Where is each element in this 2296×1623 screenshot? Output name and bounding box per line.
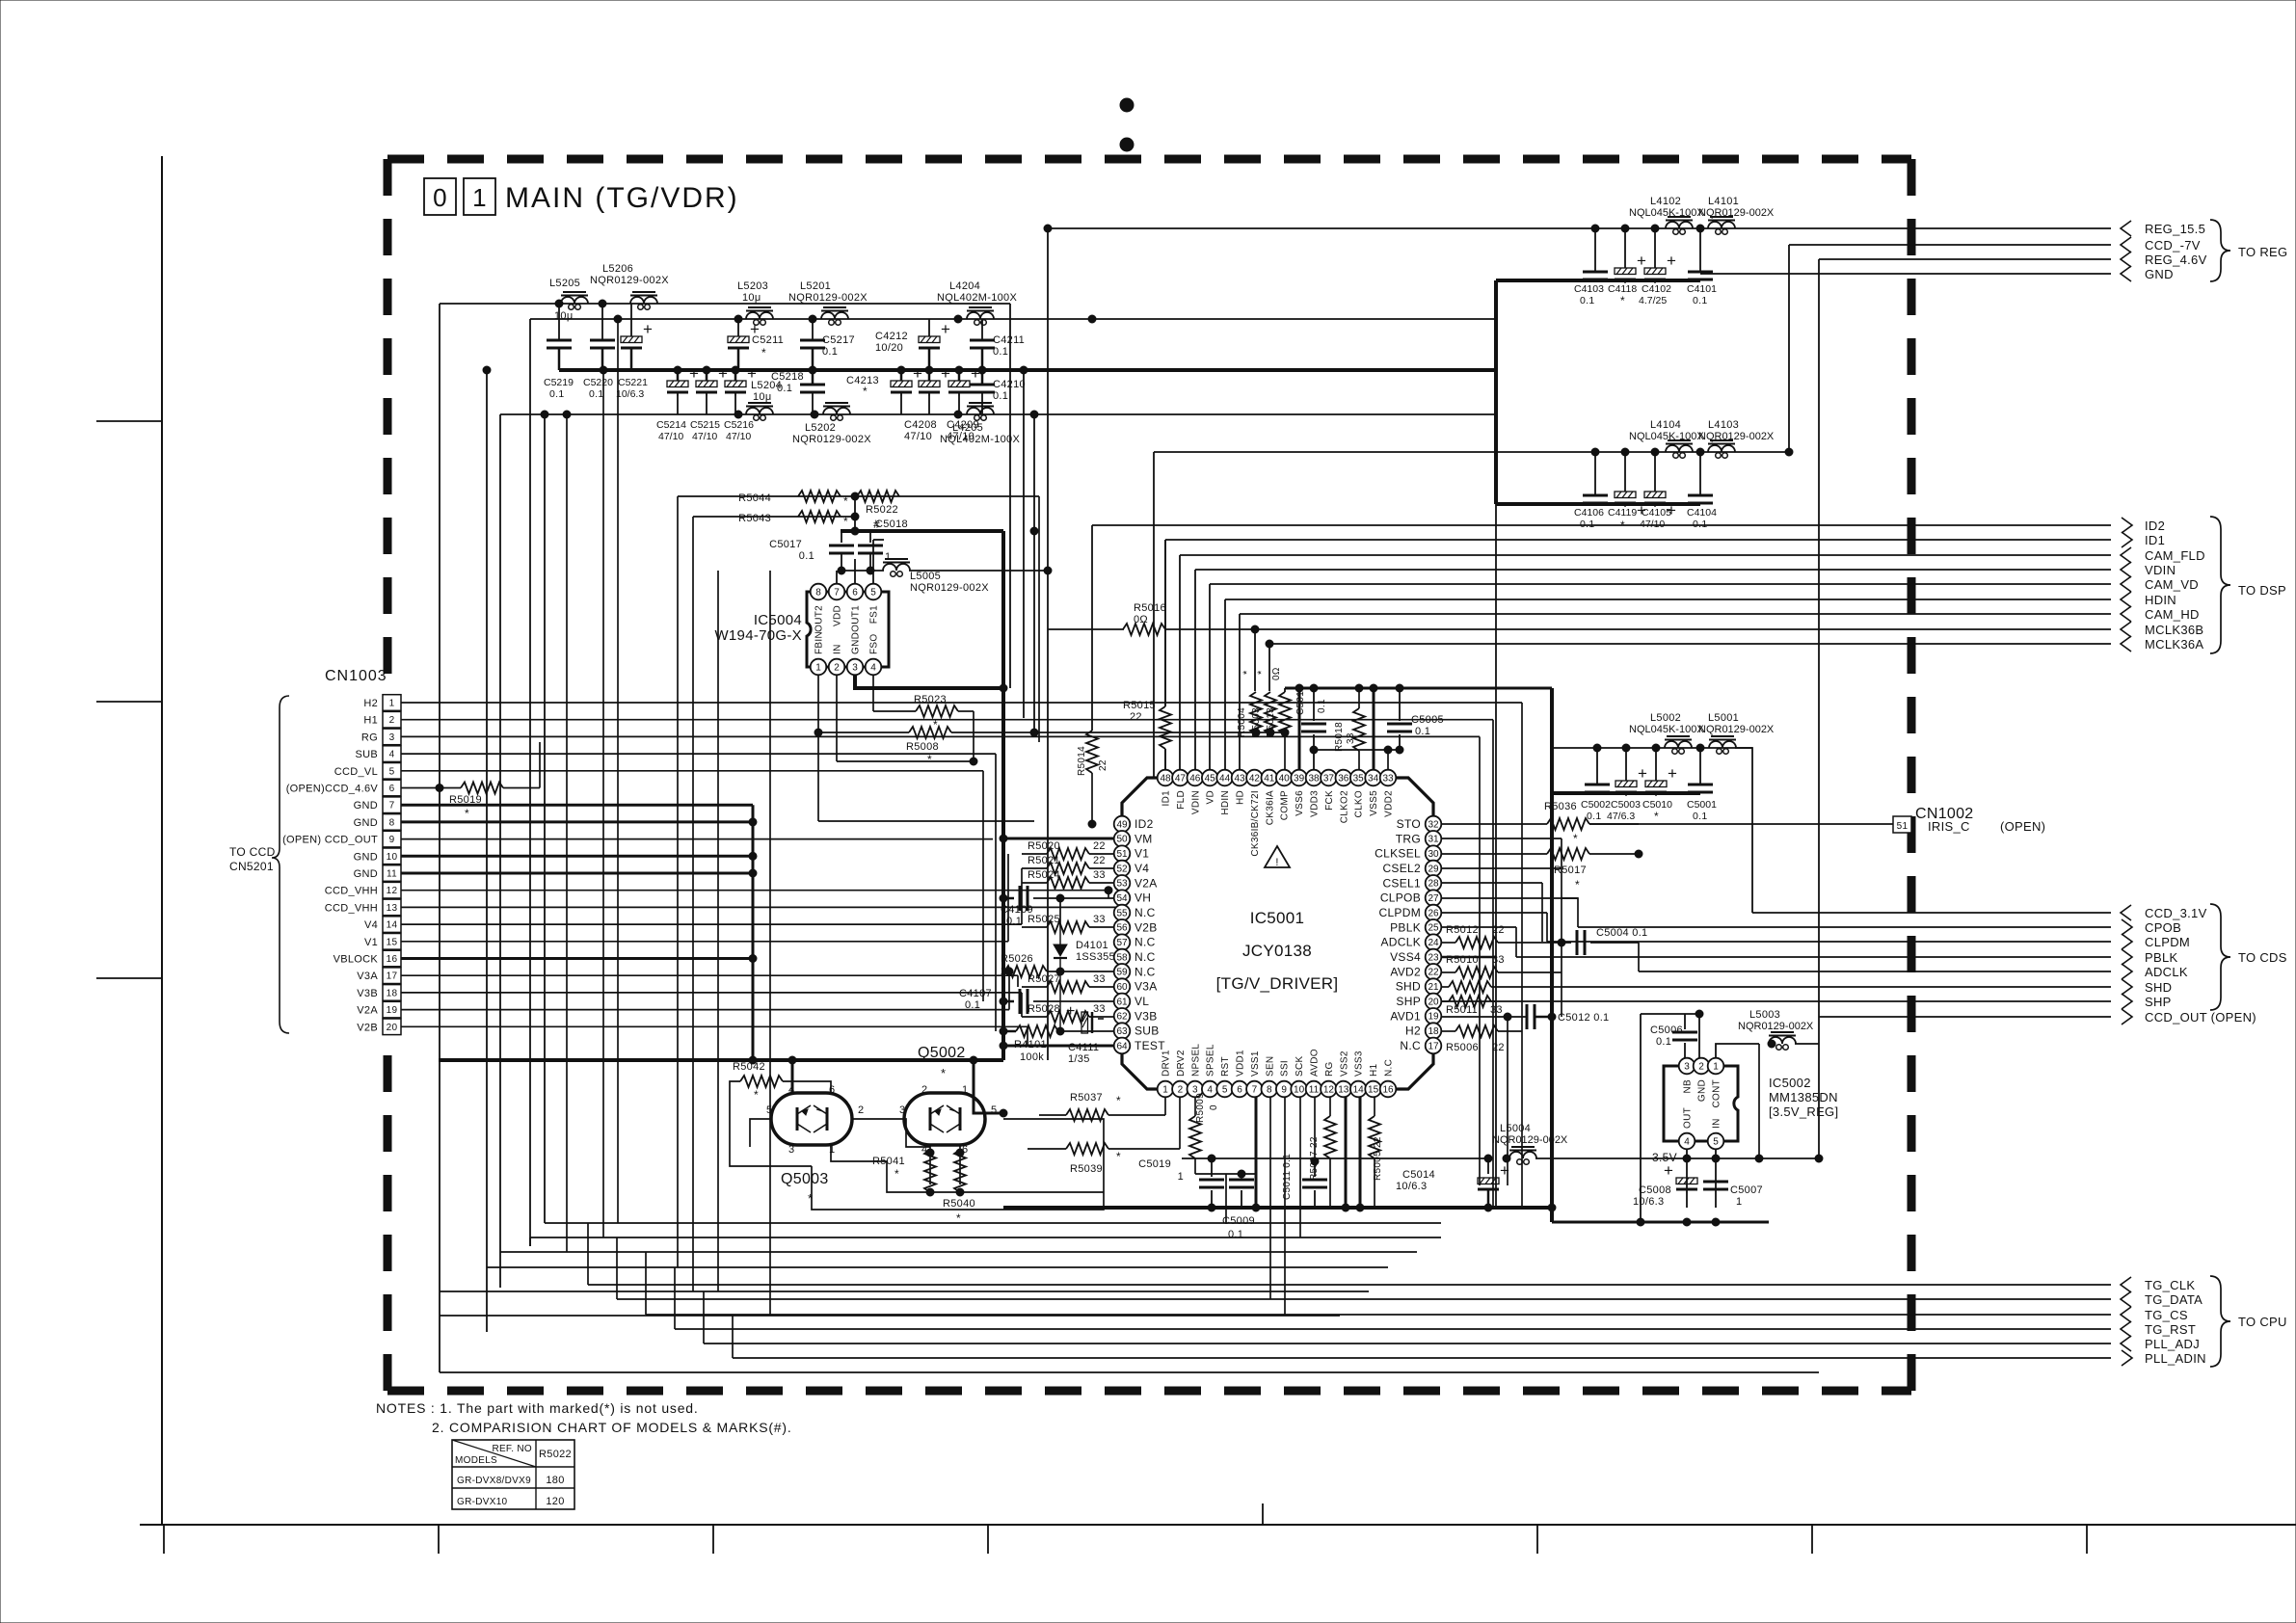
svg-text:29: 29 — [1428, 864, 1439, 874]
wire staircase v1 — [587, 1223, 589, 1285]
svg-text:2: 2 — [858, 1104, 864, 1116]
IC5004 pin 7 (VDD) — [829, 584, 845, 626]
svg-text:VSS3: VSS3 — [1354, 1051, 1365, 1077]
svg-text:*: * — [894, 1167, 899, 1181]
svg-text:N.C: N.C — [1135, 936, 1156, 949]
wire staircase v6 — [732, 1316, 734, 1358]
svg-text:H2: H2 — [1405, 1024, 1421, 1038]
wire pin13 thick — [1345, 1097, 1348, 1208]
svg-text:VSS1: VSS1 — [1250, 1051, 1261, 1077]
wire net CAM_VD — [1210, 584, 2111, 769]
junction — [1591, 225, 1599, 232]
svg-text:L4103: L4103 — [1708, 419, 1739, 431]
capacitor C4102 (electrolytic) — [1639, 228, 1676, 306]
svg-text:V3A: V3A — [357, 971, 378, 982]
capacitor C4106 — [1574, 452, 1608, 530]
connector CN1003 pin 14 (V4) — [364, 917, 401, 933]
svg-text:C4209: C4209 — [947, 419, 979, 431]
net arrow TG_CLK — [2121, 1277, 2195, 1292]
page bottom tick 6 — [1536, 1525, 1538, 1554]
IC5002 pin 4 (OUT) — [1679, 1107, 1695, 1149]
svg-text:0.1: 0.1 — [589, 388, 604, 400]
svg-text:22: 22 — [1001, 966, 1013, 977]
capacitor C4119 (electrolytic) — [1608, 452, 1646, 532]
wire L5005 out — [909, 567, 1052, 574]
wire CN1003 pin 16 GND — [401, 955, 757, 963]
connector CN1003 pin 16 (VBLOCK) — [334, 950, 401, 967]
svg-text:R5023: R5023 — [914, 694, 947, 705]
net arrow HDIN — [2121, 592, 2176, 607]
svg-text:CAM_VD: CAM_VD — [2145, 577, 2199, 592]
svg-text:CCD_VHH: CCD_VHH — [325, 886, 378, 897]
svg-text:GND: GND — [2145, 267, 2174, 281]
svg-text:C4119: C4119 — [1608, 507, 1637, 519]
IC5001 pin 47 (FLD) — [1172, 770, 1188, 810]
wire CN1003 pin 8 GND — [401, 818, 757, 826]
svg-text:+: + — [689, 364, 699, 383]
svg-text:HDIN: HDIN — [2145, 593, 2176, 607]
svg-text:6: 6 — [852, 587, 858, 598]
svg-text:FLD: FLD — [1176, 790, 1187, 810]
svg-text:6: 6 — [389, 784, 395, 794]
IC IC5002 MM1385DN body — [1664, 1066, 1838, 1141]
svg-text:NQL045K-100X: NQL045K-100X — [1629, 207, 1704, 219]
svg-text:18: 18 — [387, 988, 398, 998]
capacitor C5009 — [1222, 1174, 1255, 1240]
inductor L5005 — [883, 559, 989, 594]
capacitor C4208 (electrolytic) — [904, 364, 950, 442]
net arrow MCLK36A — [2121, 636, 2203, 652]
inductor L5201 — [788, 280, 868, 325]
svg-text:12: 12 — [1323, 1084, 1335, 1095]
svg-text:1: 1 — [1178, 1171, 1184, 1183]
svg-text:VD: VD — [1206, 790, 1216, 805]
svg-text:C5221: C5221 — [618, 377, 648, 388]
wire IC5002 left vertical — [1640, 1014, 1642, 1222]
capacitor C5007 — [1703, 1182, 1763, 1208]
svg-text:7: 7 — [1252, 1084, 1258, 1095]
inductor L5003 — [1738, 1009, 1814, 1050]
svg-text:60: 60 — [1116, 982, 1128, 993]
svg-text:3: 3 — [788, 1144, 794, 1156]
svg-text:10/6.3: 10/6.3 — [1633, 1196, 1664, 1208]
inductor L4101 — [1698, 196, 1775, 234]
wire R5042 right — [783, 1081, 831, 1093]
wire L5003 out — [1795, 1043, 1819, 1045]
IC5001 pin 33 (VDD2) — [1380, 770, 1397, 817]
svg-text:33: 33 — [1490, 1004, 1503, 1016]
svg-text:19: 19 — [1428, 1012, 1439, 1023]
svg-text:+: + — [941, 364, 950, 383]
wire cluster2 feed — [1154, 451, 1496, 453]
svg-text:TO CDS: TO CDS — [2238, 950, 2287, 965]
label 3.5V — [1652, 1151, 1677, 1164]
capacitor C5013 — [1295, 685, 1327, 769]
svg-text:L5205: L5205 — [549, 278, 580, 289]
svg-text:NOTES : 1. The part with marke: NOTES : 1. The part with marked(*) is no… — [376, 1400, 699, 1416]
wire IC5002 bottom bus — [1552, 1218, 1769, 1226]
svg-text:1: 1 — [829, 1144, 835, 1156]
wire CN1003 pin 10 GND — [401, 852, 757, 860]
page bottom tick 4 — [987, 1525, 989, 1554]
capacitor C4118 (electrolytic) — [1608, 228, 1646, 307]
wire staircase v3 — [645, 1252, 647, 1315]
wire IC5004 pin5 up — [873, 540, 884, 584]
capacitor C5004 — [1562, 927, 1647, 955]
wire IC5004 pin1 down — [818, 675, 1034, 821]
junction — [1651, 448, 1659, 456]
wire CN1003 pin 1 — [401, 703, 1522, 1208]
svg-text:33: 33 — [1093, 1003, 1106, 1015]
svg-text:47: 47 — [1175, 773, 1187, 784]
svg-text:N.C: N.C — [1135, 965, 1156, 978]
wire IRIS_C — [1589, 823, 1893, 825]
wire CN1003 pin 4 — [401, 754, 996, 1031]
inductor L4102 — [1629, 196, 1704, 234]
svg-text:NB: NB — [1683, 1079, 1694, 1094]
notes line 2 — [432, 1420, 792, 1435]
wire R5041/R5040 bottom join — [926, 1188, 1104, 1196]
svg-text:CLKO2: CLKO2 — [1339, 790, 1349, 823]
resistor R5005 — [1369, 1097, 1383, 1208]
svg-text:0.1: 0.1 — [822, 346, 838, 358]
svg-text:CK36IB/CK72I: CK36IB/CK72I — [1250, 790, 1261, 857]
svg-text:17: 17 — [1428, 1041, 1439, 1051]
net arrow PLL_ADIN — [2122, 1350, 2206, 1366]
wire vertical column x=641 — [614, 315, 622, 1223]
wire IC5004 pin6 up — [854, 559, 856, 584]
svg-text:2: 2 — [1698, 1061, 1704, 1072]
svg-text:40: 40 — [1279, 773, 1291, 784]
svg-text:47/10: 47/10 — [1640, 519, 1665, 530]
wire CN1003 pin 3 — [401, 736, 1480, 1185]
svg-text:47/10: 47/10 — [904, 431, 932, 442]
wire Q5003 pin1 route — [831, 1145, 930, 1192]
svg-text:C4107: C4107 — [959, 988, 992, 999]
IC5001 pin 59 (N.C) — [1114, 964, 1156, 980]
page bottom border line — [140, 1524, 2296, 1526]
svg-text:OUT2: OUT2 — [814, 605, 825, 632]
title sheet number box 0 — [424, 178, 456, 215]
net arrow TG_RST — [2121, 1321, 2196, 1337]
net arrow MCLK36B — [2121, 622, 2203, 637]
wire R5044 line — [678, 495, 1039, 497]
svg-text:SHP: SHP — [2145, 995, 2172, 1009]
svg-text:*: * — [1654, 810, 1659, 823]
svg-text:D4101: D4101 — [1076, 940, 1108, 951]
svg-text:TO REG: TO REG — [2238, 245, 2287, 259]
wire staircase v2 — [616, 1237, 618, 1299]
connector CN1003 pin 7 (GND) — [354, 797, 401, 813]
svg-text:V2A: V2A — [357, 1005, 378, 1017]
svg-text:+: + — [1668, 764, 1677, 783]
svg-text:28: 28 — [1428, 879, 1439, 890]
junction — [809, 315, 816, 323]
svg-text:42: 42 — [1249, 773, 1261, 784]
svg-text:0.1: 0.1 — [1693, 519, 1708, 530]
wire net PBLK — [1516, 956, 2111, 958]
junction — [1621, 448, 1629, 456]
svg-text:CSEL2: CSEL2 — [1382, 862, 1421, 875]
wire CN1003 pin 18 — [401, 993, 1022, 1017]
resistor R5020 — [1022, 840, 1114, 860]
svg-text:R5018: R5018 — [1334, 722, 1345, 752]
svg-text:N.C: N.C — [1384, 1059, 1395, 1077]
brace TO CCD — [229, 696, 289, 1033]
wire thick vertical x=1552 — [1494, 280, 1498, 1208]
svg-text:NQR0129-002X: NQR0129-002X — [792, 434, 871, 445]
net arrow PBLK — [2122, 949, 2177, 965]
svg-text:TRG: TRG — [1396, 832, 1421, 845]
wire vertical mid 2 — [1020, 366, 1028, 718]
IC5001 pin 6 (VDD1) — [1232, 1050, 1248, 1097]
junction — [1593, 744, 1601, 752]
wire net TG_CLK — [588, 1284, 2111, 1286]
wire GND net — [1700, 273, 2111, 275]
svg-text:8: 8 — [389, 817, 395, 828]
wire R5042 loop — [730, 1081, 812, 1166]
IC5002 pin 2 (GND) — [1694, 1058, 1710, 1102]
resistor R5011 — [1441, 996, 1562, 1016]
svg-text:C5011 0.1: C5011 0.1 — [1282, 1154, 1293, 1200]
capacitor C5005 — [1387, 688, 1444, 750]
svg-text:45: 45 — [1205, 773, 1216, 784]
inductor L4104 — [1629, 419, 1704, 458]
capacitor C5219 — [544, 304, 574, 400]
svg-text:27: 27 — [1428, 893, 1439, 904]
svg-text:[TG/V_DRIVER]: [TG/V_DRIVER] — [1216, 974, 1339, 993]
IC5001 pin 63 (SUB) — [1114, 1023, 1160, 1039]
wire thick Q5002 stub — [974, 1060, 985, 1113]
connector CN1003 pin 9 ((OPEN) CCD_OUT) — [282, 831, 401, 847]
svg-text:ADCLK: ADCLK — [1380, 936, 1421, 949]
svg-text:VSS6: VSS6 — [1295, 790, 1305, 816]
svg-text:54: 54 — [1116, 893, 1128, 904]
svg-text:R5009: R5009 — [1195, 1093, 1206, 1123]
svg-text:STO: STO — [1397, 817, 1421, 831]
resistor R5008 — [906, 727, 1039, 766]
svg-text:36: 36 — [1338, 773, 1349, 784]
svg-text:+: + — [1637, 252, 1646, 270]
svg-text:C5219: C5219 — [544, 377, 574, 388]
svg-text:33: 33 — [1093, 914, 1106, 925]
IC5001 pin 52 (V4) — [1114, 861, 1150, 877]
capacitor C5002 — [1581, 748, 1611, 822]
svg-text:51: 51 — [1897, 821, 1909, 832]
IC5001 pin 48 (ID1) — [1158, 770, 1174, 807]
svg-text:GND: GND — [354, 817, 378, 829]
wire CN1003 pin 11 GND — [401, 869, 757, 877]
svg-text:0.1: 0.1 — [1317, 699, 1327, 713]
wire net TG_CS — [646, 1314, 2111, 1316]
title text MAIN (TG/VDR) — [505, 182, 739, 214]
svg-text:43: 43 — [1234, 773, 1245, 784]
svg-text:V1: V1 — [364, 937, 378, 948]
svg-text:62: 62 — [1116, 1012, 1128, 1023]
brace TO DSP — [2210, 517, 2286, 653]
net arrow SHP — [2122, 994, 2172, 1009]
wire CN1003 pin 6 — [401, 785, 461, 792]
svg-text:VDD: VDD — [833, 605, 843, 626]
junction — [1696, 448, 1704, 456]
connector CN1003 pin 1 (H2) — [363, 695, 401, 711]
wire Q5003 pin2 out — [852, 1119, 930, 1147]
net arrow CCD_OUT — [2122, 1009, 2256, 1024]
svg-text:MM1385DN: MM1385DN — [1769, 1090, 1838, 1104]
wire thick elbow cluster 2 — [1496, 502, 1555, 506]
svg-text:COMP: COMP — [1280, 790, 1291, 820]
wire CN1003 pin 14 — [401, 868, 1022, 924]
IC5001 pin 24 (ADCLK) — [1380, 934, 1441, 950]
wire R5043 line — [693, 513, 859, 520]
capacitor C5221 (electrolytic) — [616, 304, 653, 400]
IC5004 pin 2 (IN) — [829, 644, 845, 675]
svg-text:61: 61 — [1116, 997, 1128, 1007]
svg-text:0Ω: 0Ω — [1134, 614, 1148, 625]
wire pin10 vertical — [1299, 1097, 1301, 1237]
svg-text:CLPDM: CLPDM — [1378, 906, 1421, 919]
svg-text:IC5001: IC5001 — [1250, 909, 1305, 927]
IC5001 pin 46 (VDIN) — [1188, 770, 1204, 814]
wire net CLPDM — [1547, 941, 2111, 943]
svg-text:14: 14 — [1353, 1084, 1365, 1095]
svg-text:NQL045K-100X: NQL045K-100X — [1629, 724, 1704, 735]
svg-text:TO CCD: TO CCD — [229, 845, 276, 859]
wire L5004 out — [1503, 1155, 1819, 1162]
svg-text:47/10: 47/10 — [692, 431, 717, 442]
svg-text:0.1: 0.1 — [965, 999, 980, 1011]
capacitor C5215 (electrolytic) — [690, 364, 728, 442]
IC5004 pin 8 (OUT2) — [811, 584, 827, 632]
svg-text:L5002: L5002 — [1650, 712, 1681, 724]
svg-text:PBLK: PBLK — [1390, 920, 1421, 934]
svg-text:L5005: L5005 — [910, 571, 941, 582]
svg-text:R5026: R5026 — [1001, 953, 1033, 965]
wire vertical column x=626 — [600, 366, 607, 1237]
svg-text:CCD_VHH: CCD_VHH — [325, 902, 378, 914]
svg-text:34: 34 — [1368, 773, 1379, 784]
resistor R5003 — [1251, 670, 1276, 737]
svg-text:5: 5 — [1713, 1136, 1719, 1147]
wire net SHP — [1562, 1000, 2111, 1002]
net arrow CPOB — [2122, 919, 2181, 935]
svg-text:CK36IA: CK36IA — [1265, 790, 1275, 825]
svg-text:ID2: ID2 — [2145, 519, 2165, 533]
IC5001 pin 56 (V2B) — [1114, 919, 1158, 936]
svg-text:CLKSEL: CLKSEL — [1375, 847, 1421, 861]
capacitor C4105 (electrolytic) — [1640, 452, 1676, 530]
svg-text:N.C: N.C — [1135, 906, 1156, 919]
page bottom tick 8 — [2086, 1525, 2088, 1554]
resistor R5022 — [857, 491, 899, 531]
wire thick vertical x=1041 (long) — [1001, 531, 1005, 1060]
svg-text:1/35: 1/35 — [1068, 1053, 1090, 1065]
page bottom tick 7 — [1811, 1525, 1813, 1554]
wire thick bus top-right cluster 1 — [1555, 279, 1700, 282]
svg-text:47/6.3: 47/6.3 — [1607, 811, 1635, 822]
svg-text:53: 53 — [1116, 879, 1128, 890]
IC5001 pin 45 (VD) — [1202, 770, 1218, 805]
capacitor C4107 — [959, 988, 1114, 1014]
svg-text:C5216: C5216 — [724, 419, 754, 431]
svg-text:SEN: SEN — [1265, 1056, 1275, 1077]
IC5001 pin 50 (VM) — [1114, 831, 1153, 847]
svg-text:R5015: R5015 — [1123, 700, 1156, 711]
inductor L5001 — [1698, 712, 1775, 754]
svg-text:10: 10 — [1294, 1084, 1305, 1095]
svg-text:VH: VH — [1135, 891, 1151, 905]
IC5001 pin 27 (CLPOB) — [1380, 890, 1441, 906]
svg-text:CCD_-7V: CCD_-7V — [2145, 238, 2201, 253]
svg-text:R5011: R5011 — [1446, 1004, 1478, 1016]
svg-text:V2B: V2B — [1135, 920, 1158, 934]
capacitor C5214 (electrolytic) — [656, 364, 699, 442]
svg-text:1: 1 — [1713, 1061, 1719, 1072]
svg-text:REG_15.5: REG_15.5 — [2145, 222, 2205, 236]
IC5001 pin 30 (CLKSEL) — [1375, 845, 1441, 862]
wire VDD3 row — [1310, 746, 1403, 769]
capacitor C5010 (electrolytic) — [1642, 748, 1677, 823]
wire thick vertical cluster3 — [1550, 688, 1554, 1222]
IC5001 pin 18 (H2) — [1405, 1023, 1441, 1039]
IC5001 pin 9 (SSI) — [1276, 1060, 1293, 1097]
IC5001 pin 38 (VDD3) — [1306, 770, 1322, 817]
svg-text:1: 1 — [885, 551, 891, 563]
svg-text:C5009: C5009 — [1222, 1215, 1255, 1227]
svg-text:47/10: 47/10 — [658, 431, 683, 442]
wire bus h6 — [440, 1315, 1340, 1317]
svg-text:R5036: R5036 — [1544, 801, 1577, 812]
junction — [1622, 744, 1630, 752]
svg-text:35: 35 — [1353, 773, 1365, 784]
svg-text:N.C: N.C — [1400, 1039, 1421, 1052]
wire below-pin stair 1 — [1269, 1097, 1271, 1299]
wire CN1003 pin 2 — [401, 720, 1493, 1208]
svg-text:VBLOCK: VBLOCK — [334, 954, 379, 966]
wire staircase v4 — [674, 1267, 676, 1329]
connector CN1003 pin 5 (CCD_VL) — [334, 763, 401, 780]
svg-text:CAM_FLD: CAM_FLD — [2145, 548, 2205, 563]
svg-text:VM: VM — [1135, 832, 1153, 845]
svg-text:0.1: 0.1 — [549, 388, 565, 400]
resistor R5023 — [914, 694, 974, 732]
junction — [1591, 448, 1599, 456]
page left tick mark 3 — [96, 977, 162, 979]
svg-text:HD: HD — [1236, 790, 1246, 805]
svg-text:6: 6 — [1237, 1084, 1242, 1095]
IC5001 pin 26 (CLPDM) — [1378, 905, 1441, 921]
svg-text:47/10: 47/10 — [947, 431, 974, 442]
wire AVD1 row — [1441, 1013, 1526, 1185]
registration dot lower — [1120, 138, 1134, 151]
wire GND thick vertical bus — [752, 805, 755, 1060]
IC5001 pin 11 (AVDO) — [1306, 1049, 1322, 1097]
capacitor C4111 (electrolytic) — [1066, 1003, 1104, 1065]
wire bottom row — [500, 413, 1496, 415]
svg-text:V4: V4 — [364, 919, 378, 931]
svg-text:20: 20 — [1428, 997, 1439, 1007]
svg-text:+: + — [1500, 1161, 1509, 1180]
svg-text:22: 22 — [1093, 855, 1106, 866]
svg-text:21: 21 — [1428, 982, 1439, 993]
svg-text:50: 50 — [1116, 835, 1128, 845]
svg-text:13: 13 — [387, 903, 398, 914]
svg-text:22: 22 — [1093, 840, 1106, 852]
svg-text:4: 4 — [1684, 1136, 1690, 1147]
svg-text:24: 24 — [1428, 938, 1439, 948]
resistor R5027 — [1022, 973, 1114, 993]
page left tick mark 1 — [96, 420, 162, 422]
